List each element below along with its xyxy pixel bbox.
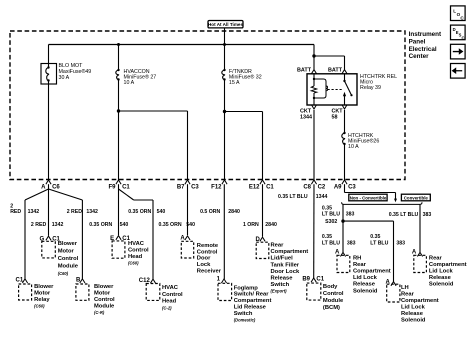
svg-text:Panel: Panel [409, 38, 426, 45]
svg-text:Foglamp: Foglamp [234, 285, 259, 291]
svg-text:383: 383 [396, 240, 405, 246]
svg-text:RH: RH [353, 255, 361, 261]
svg-text:Receiver: Receiver [197, 268, 222, 274]
svg-text:BATT: BATT [297, 68, 312, 74]
svg-text:B7: B7 [177, 185, 185, 191]
svg-text:2840: 2840 [228, 209, 240, 215]
svg-text:Rear: Rear [429, 255, 443, 261]
svg-text:Lid Release: Lid Release [234, 305, 267, 311]
svg-text:Head: Head [162, 299, 177, 305]
svg-text:F12: F12 [211, 185, 222, 191]
svg-text:383: 383 [423, 212, 432, 218]
svg-text:(C-R): (C-R) [94, 310, 105, 315]
svg-text:F9: F9 [108, 185, 116, 191]
svg-text:(Export): (Export) [271, 289, 288, 294]
svg-text:0.35 LT BLU: 0.35 LT BLU [278, 194, 308, 200]
svg-text:(Domestic): (Domestic) [234, 317, 256, 322]
svg-text:10 A: 10 A [348, 144, 359, 150]
svg-text:Module: Module [94, 304, 115, 310]
svg-text:Module: Module [58, 263, 79, 269]
svg-text:Release: Release [271, 276, 294, 282]
svg-text:1342: 1342 [52, 222, 64, 228]
svg-text:383: 383 [346, 212, 355, 218]
svg-text:Non - Convertible: Non - Convertible [350, 195, 387, 200]
svg-text:0.35 ORN: 0.35 ORN [159, 222, 182, 228]
svg-text:Switch/ Rear: Switch/ Rear [234, 292, 270, 298]
svg-text:Lock: Lock [197, 262, 211, 268]
svg-text:Head: Head [128, 254, 143, 260]
svg-text:LH: LH [401, 285, 409, 291]
svg-text:Relay 39: Relay 39 [360, 85, 381, 91]
svg-text:Control: Control [162, 292, 183, 298]
svg-text:Compartment: Compartment [271, 249, 309, 255]
svg-text:1344: 1344 [316, 194, 328, 200]
svg-text:15 A: 15 A [229, 80, 240, 86]
svg-text:540: 540 [120, 222, 129, 228]
svg-text:(C-2): (C-2) [162, 306, 172, 311]
svg-text:C2: C2 [318, 185, 326, 191]
svg-text:A: A [41, 185, 46, 191]
svg-text:1342: 1342 [86, 209, 98, 215]
svg-text:Motor: Motor [58, 249, 75, 255]
svg-text:Compartment: Compartment [401, 298, 439, 304]
svg-text:BATT: BATT [328, 68, 343, 74]
svg-text:Control: Control [94, 297, 115, 303]
svg-text:HVAC: HVAC [128, 241, 145, 247]
svg-text:Compartment: Compartment [234, 298, 272, 304]
svg-text:(C60): (C60) [34, 304, 45, 309]
svg-text:10 A: 10 A [124, 80, 135, 86]
svg-text:B9: B9 [302, 277, 310, 283]
svg-text:58: 58 [332, 114, 338, 120]
svg-text:1 ORN: 1 ORN [243, 222, 259, 228]
svg-text:Solenoid: Solenoid [401, 318, 426, 324]
svg-text:540: 540 [186, 222, 195, 228]
svg-text:Compartment: Compartment [429, 262, 467, 268]
svg-text:2 RED: 2 RED [67, 209, 83, 215]
svg-text:0.35 ORN: 0.35 ORN [89, 222, 112, 228]
svg-text:MaxiFuse®49: MaxiFuse®49 [59, 68, 92, 75]
svg-text:0.35 ORN: 0.35 ORN [128, 209, 151, 215]
svg-text:Blower: Blower [94, 284, 114, 290]
svg-text:Solenoid: Solenoid [353, 288, 378, 294]
svg-text:2840: 2840 [265, 222, 277, 228]
svg-text:C1: C1 [122, 185, 130, 191]
svg-text:Module: Module [323, 298, 344, 304]
svg-text:Rear: Rear [353, 262, 367, 268]
svg-text:Release: Release [401, 311, 424, 317]
svg-text:LT BLU: LT BLU [322, 240, 340, 246]
svg-text:Electrical: Electrical [409, 46, 437, 53]
svg-text:Motor: Motor [94, 291, 111, 297]
svg-text:C3: C3 [191, 185, 199, 191]
svg-text:Blower: Blower [34, 284, 54, 290]
svg-text:E12: E12 [249, 185, 260, 191]
svg-text:Control: Control [58, 256, 79, 262]
svg-text:Relay: Relay [34, 297, 50, 303]
svg-text:Body: Body [323, 284, 338, 290]
svg-text:Control: Control [323, 291, 344, 297]
svg-text:Lid Lock: Lid Lock [353, 275, 378, 281]
svg-text:Tank Filler: Tank Filler [271, 262, 300, 268]
svg-text:C1: C1 [266, 185, 274, 191]
svg-text:BLO MOT: BLO MOT [59, 63, 84, 69]
svg-text:Remote: Remote [197, 243, 219, 249]
svg-text:Rear: Rear [271, 243, 285, 249]
svg-text:C1: C1 [316, 277, 324, 283]
svg-text:Center: Center [409, 53, 429, 60]
svg-text:1344: 1344 [300, 114, 312, 120]
svg-text:Switch: Switch [234, 311, 253, 317]
svg-text:LT BLU: LT BLU [370, 240, 388, 246]
svg-text:Solenoid: Solenoid [429, 282, 454, 288]
svg-text:(C60): (C60) [58, 271, 69, 276]
svg-text:A: A [335, 250, 340, 256]
svg-text:Door Lock: Door Lock [271, 269, 300, 275]
svg-text:Motor: Motor [34, 291, 51, 297]
svg-text:Control: Control [128, 248, 149, 254]
svg-text:0.35: 0.35 [370, 234, 380, 240]
svg-text:(BCM): (BCM) [323, 305, 340, 311]
svg-text:30 A: 30 A [59, 75, 70, 81]
svg-text:Door: Door [197, 256, 211, 262]
svg-text:Compartment: Compartment [353, 269, 391, 275]
svg-text:HVAC: HVAC [162, 285, 179, 291]
svg-text:Release: Release [429, 275, 452, 281]
svg-text:C1: C1 [16, 278, 24, 284]
svg-text:C3: C3 [348, 185, 356, 191]
svg-text:Switch: Switch [271, 282, 290, 288]
svg-text:Lid/Fuel: Lid/Fuel [271, 256, 294, 262]
svg-text:RED: RED [10, 209, 21, 215]
svg-text:A9: A9 [334, 185, 342, 191]
svg-text:Instrument: Instrument [409, 31, 442, 38]
svg-text:383: 383 [347, 240, 356, 246]
svg-text:Convertible: Convertible [404, 195, 429, 200]
svg-text:B: B [76, 278, 81, 284]
svg-text:(C60): (C60) [128, 260, 139, 265]
svg-text:0.5 ORN: 0.5 ORN [200, 209, 220, 215]
svg-text:Lid Lock: Lid Lock [429, 269, 454, 275]
svg-text:C6: C6 [52, 185, 60, 191]
svg-text:C: C [462, 35, 465, 40]
svg-text:0.35: 0.35 [322, 234, 332, 240]
svg-text:Rear: Rear [401, 292, 415, 298]
svg-text:2 RED: 2 RED [31, 222, 47, 228]
svg-text:LT BLU: LT BLU [322, 211, 340, 217]
svg-text:A: A [412, 250, 417, 256]
svg-text:1342: 1342 [28, 209, 40, 215]
svg-text:Release: Release [353, 282, 376, 288]
svg-text:S302: S302 [325, 219, 337, 225]
svg-text:Blower: Blower [58, 241, 78, 247]
svg-text:Lid Lock: Lid Lock [401, 305, 426, 311]
svg-text:Hot At All Times: Hot At All Times [208, 22, 243, 27]
svg-text:A: A [180, 236, 185, 242]
svg-text:Control: Control [197, 249, 218, 255]
svg-text:540: 540 [157, 209, 166, 215]
svg-text:C8: C8 [303, 185, 311, 191]
svg-text:0.35 LT BLU: 0.35 LT BLU [389, 212, 419, 218]
